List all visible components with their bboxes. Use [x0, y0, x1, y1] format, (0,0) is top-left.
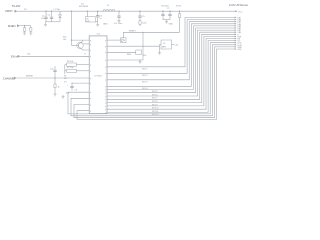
wire bus A net 1 — [107, 18, 235, 67]
node VMOT label 5V-26V — [12, 4, 21, 8]
capacitor C8 — [50, 66, 57, 78]
resistor R6 — [65, 61, 89, 66]
wire q1 emitter — [81, 49, 89, 50]
svg-text:VCC: VCC — [238, 11, 243, 13]
svg-text:p: p — [105, 52, 106, 54]
transistor Q1 — [75, 42, 83, 48]
svg-text:p: p — [105, 80, 106, 82]
svg-text:p: p — [105, 99, 106, 101]
label SV1 nets B — [152, 91, 159, 116]
svg-text:RESET: RESET — [129, 31, 136, 33]
svg-text:10k: 10k — [63, 39, 66, 41]
wire c6 c7 bottom — [163, 19, 170, 21]
wire bus B net 8 — [107, 32, 235, 99]
svg-text:p: p — [90, 104, 91, 106]
ground G9 — [62, 95, 65, 99]
IC2 pin names — [90, 40, 106, 114]
svg-text:VMOT: VMOT — [5, 9, 13, 13]
inductor L1 — [103, 5, 115, 11]
svg-text:p: p — [90, 92, 91, 94]
junction rail C1 — [45, 11, 46, 12]
svg-text:R1 1k: R1 1k — [176, 5, 182, 7]
svg-text:1k: 1k — [58, 86, 60, 88]
svg-text:p: p — [90, 65, 91, 67]
ground G6 — [54, 94, 57, 96]
wire bus B net 10 — [107, 36, 235, 106]
wire reset net — [123, 31, 179, 33]
capacitor C2 — [48, 11, 54, 22]
svg-text:LPC900: LPC900 — [94, 75, 102, 77]
svg-text:SV1 5: SV1 5 — [152, 91, 158, 93]
label en r — [27, 54, 30, 56]
svg-text:SENSE: SENSE — [26, 75, 33, 77]
svg-text:p: p — [105, 96, 106, 98]
wire bus B net 12 — [107, 41, 235, 113]
ground G8 — [139, 59, 142, 63]
wire pin gnd — [107, 32, 144, 60]
svg-text:CHANNEL: CHANNEL — [3, 77, 16, 80]
resistor R7 — [65, 67, 89, 72]
resistor R5 — [54, 77, 60, 93]
crystal Q2 — [107, 40, 179, 49]
connector X2 M4EN — [8, 24, 20, 28]
svg-text:p: p — [105, 106, 106, 108]
svg-text:MHz: MHz — [162, 47, 166, 49]
svg-text:p: p — [105, 109, 106, 111]
svg-text:p: p — [105, 103, 106, 105]
svg-text:EN in: EN in — [11, 55, 18, 59]
svg-text:p: p — [90, 56, 91, 58]
svg-text:MC34063: MC34063 — [79, 6, 89, 8]
wire bus A net 3 — [107, 22, 235, 80]
junction rail vdd drop — [71, 11, 72, 12]
svg-text:SV1 9: SV1 9 — [152, 104, 158, 106]
wire reg bottom — [96, 21, 98, 23]
svg-text:p: p — [105, 40, 106, 42]
wire en — [21, 55, 90, 57]
ground G7 — [158, 46, 161, 55]
capacitor C11 label — [66, 92, 69, 94]
wire r6 r7 left — [64, 65, 67, 84]
svg-text:GND: GND — [169, 24, 174, 26]
svg-text:R7 10k: R7 10k — [67, 67, 73, 69]
svg-text:p: p — [105, 86, 106, 88]
wire bus A net 4 — [107, 24, 235, 87]
svg-text:RES: RES — [127, 54, 132, 56]
svg-text:SV1 10: SV1 10 — [152, 108, 159, 110]
svg-text:SV1 1: SV1 1 — [142, 69, 148, 71]
op-amp n/a IC2 box — [89, 34, 107, 114]
capacitor C4 — [114, 11, 123, 25]
capacitor C7 — [167, 8, 172, 20]
svg-text:p: p — [105, 60, 106, 62]
capacitor C6 — [161, 5, 170, 19]
capacitor C1 — [41, 11, 48, 22]
wire q1 collector — [81, 40, 89, 44]
connector SV1 pads — [235, 17, 243, 51]
svg-text:SV1 6: SV1 6 — [152, 94, 158, 96]
wire bus B net 7 — [107, 30, 235, 96]
svg-text:p: p — [90, 83, 91, 85]
svg-text:p: p — [105, 67, 106, 69]
pad VCC on SV1 — [235, 10, 243, 13]
svg-text:p: p — [105, 93, 106, 95]
wire ic pin3 — [82, 54, 89, 57]
svg-text:SV1 2: SV1 2 — [142, 75, 148, 77]
svg-text:R6 10k: R6 10k — [67, 61, 73, 63]
wire channel — [17, 77, 89, 79]
junction m4en — [24, 25, 25, 26]
svg-text:L1 33u: L1 33u — [54, 9, 61, 11]
wire bus B net 5 — [107, 26, 235, 90]
svg-text:SV1 4: SV1 4 — [142, 88, 148, 90]
diode D2 — [107, 38, 126, 43]
svg-text:M4EN: M4EN — [8, 24, 16, 28]
wire bus wrap net 16 — [77, 49, 235, 119]
svg-text:1u: 1u — [99, 18, 101, 20]
svg-text:100n: 100n — [142, 23, 146, 25]
svg-text:p: p — [90, 40, 91, 42]
capacitor C9 — [67, 83, 89, 92]
wire bus wrap net 15 — [74, 47, 235, 118]
svg-text:p: p — [90, 50, 91, 52]
svg-text:p: p — [105, 46, 106, 48]
wire bus B net 9 — [107, 34, 235, 102]
svg-text:SV1 3: SV1 3 — [142, 82, 148, 84]
svg-text:SV1 11: SV1 11 — [152, 111, 159, 113]
regulator U1 box — [85, 11, 95, 22]
wire bus A net 2 — [107, 20, 235, 74]
svg-text:4k7: 4k7 — [64, 78, 67, 80]
svg-text:GND: GND — [103, 23, 108, 25]
title text LCD UP Demo — [229, 3, 248, 7]
junction rail reg — [87, 11, 88, 12]
svg-text:p: p — [90, 98, 91, 100]
svg-text:C9: C9 — [75, 90, 77, 92]
resistor R8 — [107, 50, 146, 57]
wire cap bottom rail — [46, 21, 60, 23]
ground G1 — [44, 22, 47, 27]
svg-text:p: p — [90, 78, 91, 80]
resistor R3 — [23, 26, 25, 33]
label SV1 nets A — [142, 69, 148, 91]
svg-text:LCD UP Demo: LCD UP Demo — [229, 3, 248, 7]
svg-text:p: p — [90, 44, 91, 46]
ground G4 — [23, 33, 26, 35]
svg-text:SV1 8: SV1 8 — [152, 101, 158, 103]
ground G2 — [96, 22, 99, 27]
connector X4 CHANNEL — [3, 77, 17, 81]
capacitor C3 — [96, 11, 103, 22]
connector X3 EN — [11, 55, 21, 59]
wire m4en — [20, 25, 31, 27]
svg-text:47u: 47u — [66, 92, 69, 94]
svg-text:10k: 10k — [143, 55, 146, 57]
svg-text:1%: 1% — [64, 82, 67, 84]
resistor R4 — [30, 26, 32, 33]
svg-text:p: p — [90, 111, 91, 113]
svg-text:p: p — [105, 89, 106, 91]
connector X1 VMOT — [5, 9, 18, 13]
wire d2 up — [122, 32, 124, 38]
junction rail C2 — [51, 11, 52, 12]
svg-text:p: p — [105, 73, 106, 75]
node +5V label — [24, 9, 27, 11]
svg-text:C6 100n: C6 100n — [161, 5, 170, 7]
diode D1 — [54, 9, 62, 22]
wire q1 base — [63, 37, 89, 46]
wire +V rail — [18, 10, 237, 12]
wire bus wrap net 13 — [68, 43, 235, 114]
label channel — [26, 75, 33, 77]
label IC1 MC34063 — [79, 3, 89, 8]
ground G5 — [29, 33, 32, 35]
svg-text:SV1 7: SV1 7 — [152, 98, 158, 100]
svg-text:5V-26V: 5V-26V — [12, 4, 21, 8]
label GND net — [103, 23, 108, 25]
svg-text:p: p — [90, 71, 91, 73]
wire bus wrap net 14 — [71, 45, 235, 116]
capacitor C5 and resistor R2 — [138, 11, 146, 27]
ground G3 — [165, 20, 174, 26]
wire rail to IC pin VDD — [71, 11, 73, 40]
svg-text:SV1 12: SV1 12 — [152, 114, 159, 116]
wire bus B net 11 — [107, 39, 235, 110]
resistor R1 — [176, 5, 182, 32]
wire bus B net 6 — [107, 28, 235, 93]
svg-text:10k: 10k — [27, 54, 30, 56]
svg-text:+C4 100u: +C4 100u — [114, 23, 123, 25]
